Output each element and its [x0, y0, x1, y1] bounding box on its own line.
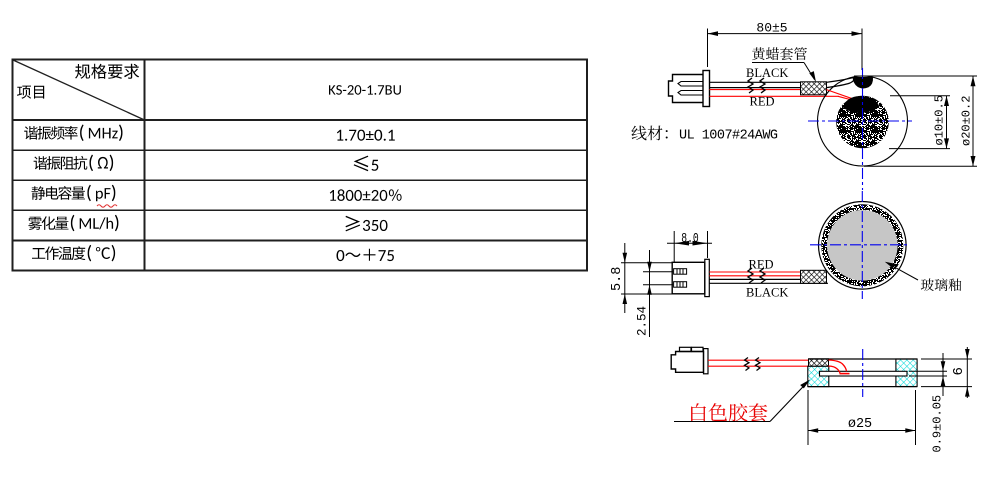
centerline (blue, view3) — [862, 349, 864, 397]
header label 项目 — [17, 86, 44, 99]
horizontal centerline (blue, view2) — [810, 244, 909, 246]
6 dim line outside arrows — [966, 347, 968, 398]
red wire lower diagonal — [838, 96, 858, 101]
ø10 arrow bottom — [944, 138, 949, 148]
wire break squiggle 2 — [760, 78, 765, 93]
svg-text:8.0: 8.0 — [681, 231, 699, 247]
red wire tail on plate — [840, 373, 850, 375]
connector pin 2 (top) — [678, 91, 703, 96]
svg-text:6: 6 — [951, 367, 967, 375]
8.0 arrow left — [674, 241, 689, 246]
row label 谐振阻抗 — [34, 155, 114, 172]
glass glaze gray disc — [827, 210, 897, 280]
connector tab 2 — [692, 347, 704, 351]
leader diagonal — [770, 382, 808, 422]
2.54 dim line with outside arrows — [649, 250, 651, 337]
row label 工作温度 — [32, 245, 115, 262]
row value 雾化量 — [346, 216, 388, 232]
connector tab 1 — [680, 347, 692, 351]
connector flange (view3) — [704, 349, 709, 374]
disc outer circle (ø20) — [818, 76, 908, 166]
leader arrowhead — [809, 71, 816, 82]
red wire line 1 — [709, 271, 821, 273]
ø20 arrow top — [971, 76, 976, 86]
connector (view3) body — [671, 352, 703, 373]
label 白色胶套 (red) — [691, 403, 767, 422]
dimension 80±5 extension line right — [861, 29, 863, 71]
solder dome on electrode — [843, 96, 880, 113]
ø20 dim line — [972, 76, 974, 166]
ø10 dim line — [946, 96, 948, 149]
dimension line 80±5 — [708, 33, 863, 35]
connector flange (side) — [705, 259, 710, 296]
vertical centerline (blue, view2) — [861, 191, 863, 299]
horizontal centerline (blue) — [808, 120, 912, 122]
wire break squiggle 1 — [748, 78, 753, 93]
glaze leader arrowhead — [885, 262, 896, 268]
ø25 extension left — [807, 390, 809, 445]
black wire line 2 — [709, 282, 828, 284]
0.9 extension lines — [909, 370, 947, 372]
row value 谐振频率 — [337, 130, 395, 141]
sleeve hatch end (view3) — [809, 359, 829, 367]
label 玻璃釉 — [921, 278, 962, 291]
squiggle 2 — [760, 268, 765, 283]
pin slot 1 — [674, 269, 687, 275]
row value 静电容量 — [330, 189, 402, 201]
wire spec text 线材 — [632, 126, 668, 141]
vertical centerline (blue) — [862, 68, 864, 190]
ø25 dim line — [808, 430, 916, 432]
svg-text:5.8: 5.8 — [610, 267, 625, 291]
black wire lower line — [710, 87, 801, 89]
red wire line 2 — [709, 275, 800, 277]
svg-text:UL 1007#24AWG: UL 1007#24AWG — [679, 129, 778, 144]
svg-text:RED: RED — [749, 258, 774, 272]
red spellcheck squiggle under pF — [97, 205, 117, 207]
row label 雾化量 — [28, 215, 118, 232]
ø10 extension line top — [890, 95, 950, 97]
0.9 dim line outside arrows — [942, 353, 944, 396]
dimension 80±5 extension line left — [707, 29, 709, 68]
svg-text:RED: RED — [750, 95, 775, 109]
disc outer ring (view2) — [819, 202, 907, 290]
svg-text:BLACK: BLACK — [746, 66, 788, 80]
red wire bottom (view3) — [708, 365, 809, 367]
ø10 extension line bottom — [889, 148, 950, 150]
white rubber ring left (cyan hatch) — [808, 366, 829, 386]
svg-text:ø10±0.5: ø10±0.5 — [933, 95, 947, 145]
wire outline lower curve into solder — [827, 79, 855, 88]
svg-text:0.9±0.05: 0.9±0.05 — [931, 395, 945, 453]
8.0 arrow right — [693, 241, 708, 246]
5.8 extension bottom — [621, 293, 672, 295]
ø20 extension line top — [854, 75, 977, 77]
row value 工作温度 — [337, 249, 394, 261]
connector housing (top view) — [669, 71, 710, 107]
squiggle 1 — [748, 268, 753, 283]
model KS-20-1.7BU — [329, 85, 401, 95]
svg-text:ø25: ø25 — [848, 417, 872, 432]
row value 谐振阻抗 — [354, 156, 379, 172]
5.8 dim line with outside arrows — [624, 243, 626, 313]
row label 静电容量 — [32, 185, 116, 202]
6 extension top — [921, 358, 972, 360]
assembly top line — [809, 358, 918, 360]
connector body (side view) — [672, 262, 705, 294]
leader arrowhead (view3) — [800, 380, 810, 389]
electrode stipple circle (ø10) — [836, 96, 889, 149]
8.0 dim line — [667, 242, 712, 244]
squiggle (view3) — [745, 358, 750, 371]
6 extension bottom — [921, 386, 972, 388]
wax sleeve hatch rect — [801, 82, 827, 95]
ø25 extension right — [915, 390, 917, 445]
red wire to center electrode upper — [827, 90, 856, 100]
red wire bend into disc — [829, 360, 847, 371]
leader to glaze — [888, 264, 918, 281]
row label 谐振频率 — [24, 124, 122, 141]
red wire lower line — [710, 95, 839, 97]
header diagonal — [13, 60, 145, 120]
leader underline 白色胶套 — [674, 421, 770, 423]
stipple ring — [821, 204, 903, 286]
solder blob top (dome) — [853, 77, 874, 89]
pin slot 2 — [674, 282, 687, 288]
2.54 pin extension lines — [643, 271, 673, 273]
leader underline for 黄蜡套管 — [752, 62, 804, 64]
red wire upper line — [710, 89, 801, 91]
svg-text:2.54: 2.54 — [636, 306, 650, 336]
5.8 extension top — [621, 262, 672, 264]
white rubber ring right (cyan hatch) — [896, 359, 917, 387]
wax sleeve hatch (view2) — [801, 270, 827, 283]
svg-text:80±5: 80±5 — [756, 20, 787, 35]
label 黄蜡套管 — [752, 47, 807, 60]
leader line to sleeve — [804, 63, 815, 80]
8.0 extension line left — [673, 231, 675, 262]
red wire top (view3) — [708, 359, 809, 361]
wire outline upper curve to rim — [827, 77, 855, 82]
spec table frame — [13, 60, 588, 271]
svg-text:BLACK: BLACK — [746, 286, 788, 300]
8.0 extension line right — [707, 231, 709, 258]
assembly bottom line — [808, 386, 918, 388]
header label 规格要求 — [75, 64, 139, 79]
ceramic disc plate (white bar) — [820, 371, 908, 376]
black wire line 1 — [709, 278, 800, 280]
arrowhead right of 80±5 — [852, 31, 863, 36]
arrowhead left of 80±5 — [708, 31, 719, 36]
ø20 extension line bottom — [864, 165, 977, 167]
ø10 arrow top — [944, 96, 949, 106]
ø20 arrow bottom — [971, 156, 976, 166]
connector pin 1 (top) — [678, 82, 703, 87]
black wire upper line — [710, 81, 801, 83]
svg-text:ø20±0.2: ø20±0.2 — [960, 96, 974, 146]
ø25 arrows — [808, 428, 818, 433]
